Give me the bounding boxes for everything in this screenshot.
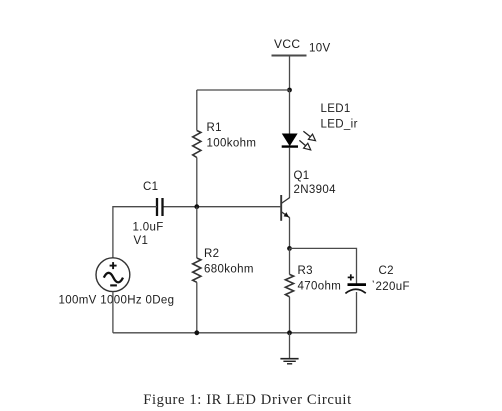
label R1 xyxy=(207,122,222,134)
wire R3 top lead xyxy=(289,248,291,274)
wire R2 bottom lead xyxy=(196,282,198,333)
label R1 value 100kohm xyxy=(207,138,257,150)
transistor Q1 xyxy=(281,195,290,221)
label V1 xyxy=(134,235,149,247)
label C1 xyxy=(143,181,158,193)
svg-text:100mV 1000Hz 0Deg: 100mV 1000Hz 0Deg xyxy=(59,295,175,307)
power symbol VCC xyxy=(272,55,307,57)
label V1 value 100mV 1000Hz 0Deg xyxy=(59,295,175,307)
wire node A to LED1 anode xyxy=(289,90,291,134)
tick mark near 220uF xyxy=(372,281,375,283)
svg-text:R2: R2 xyxy=(204,248,219,260)
wire VCC down to node A xyxy=(289,56,291,91)
label C2 value 220uF xyxy=(376,281,410,293)
svg-text:680kohm: 680kohm xyxy=(204,264,254,276)
node E junction ground xyxy=(287,330,292,335)
node B junction xyxy=(194,204,199,209)
wire R1 bottom lead xyxy=(196,158,198,207)
wire V1 bottom to rail xyxy=(112,292,114,333)
label LED_ir xyxy=(321,119,358,131)
label C1 value 1.0uF xyxy=(133,222,164,234)
label LED1 xyxy=(321,103,351,115)
wire bottom rail xyxy=(113,332,357,334)
label Q1 xyxy=(294,170,310,182)
svg-text:C2: C2 xyxy=(379,265,394,277)
svg-text:VCC: VCC xyxy=(274,37,300,51)
svg-text:Figure 1: IR LED Driver Circui: Figure 1: IR LED Driver Circuit xyxy=(143,392,352,408)
resistor R1 xyxy=(193,131,201,158)
label 10V xyxy=(309,43,331,55)
wire R1 top lead xyxy=(196,90,198,131)
capacitor C2 polarized xyxy=(345,274,366,293)
node C junction xyxy=(287,246,292,251)
label R2 value 680kohm xyxy=(204,264,254,276)
wire node A to R1 top xyxy=(197,89,290,91)
svg-text:100kohm: 100kohm xyxy=(207,138,257,150)
svg-text:10V: 10V xyxy=(309,43,331,55)
ground xyxy=(280,333,298,364)
wire LED1 cathode to Q1 collector xyxy=(289,148,291,198)
label Q1 value 2N3904 xyxy=(294,184,337,196)
svg-text:Q1: Q1 xyxy=(294,170,310,182)
svg-text:220uF: 220uF xyxy=(376,281,410,293)
wire C2 bottom lead xyxy=(356,292,358,333)
label R3 xyxy=(298,265,313,277)
node D junction R2-rail xyxy=(194,330,199,335)
source V1 xyxy=(96,258,130,292)
capacitor C1 xyxy=(157,198,163,216)
svg-text:V1: V1 xyxy=(134,235,149,247)
wire C1 left to V1 top xyxy=(113,207,157,258)
wire Q1 emitter to node C xyxy=(289,218,291,249)
svg-text:R3: R3 xyxy=(298,265,313,277)
svg-text:R1: R1 xyxy=(207,122,222,134)
wire R3 bottom lead xyxy=(289,297,291,333)
svg-text:C1: C1 xyxy=(143,181,158,193)
node A junction xyxy=(287,88,292,93)
label R3 value 470ohm xyxy=(298,281,342,293)
resistor R3 xyxy=(285,274,293,296)
wire base (C1 to Q1 base) xyxy=(163,206,282,208)
LED LED1 xyxy=(282,134,298,147)
label R2 xyxy=(204,248,219,260)
label C2 xyxy=(379,265,394,277)
svg-text:1.0uF: 1.0uF xyxy=(133,222,164,234)
resistor R2 xyxy=(193,258,201,282)
LED light emission arrows xyxy=(299,131,315,150)
svg-text:470ohm: 470ohm xyxy=(298,281,342,293)
svg-text:LED_ir: LED_ir xyxy=(321,119,358,131)
caption Figure 1: IR LED Driver Circuit xyxy=(143,392,352,408)
svg-text:LED1: LED1 xyxy=(321,103,351,115)
svg-text:2N3904: 2N3904 xyxy=(294,184,337,196)
wire R2 top lead xyxy=(196,207,198,258)
wire node C to C2 top xyxy=(290,248,357,284)
label VCC xyxy=(274,37,300,51)
